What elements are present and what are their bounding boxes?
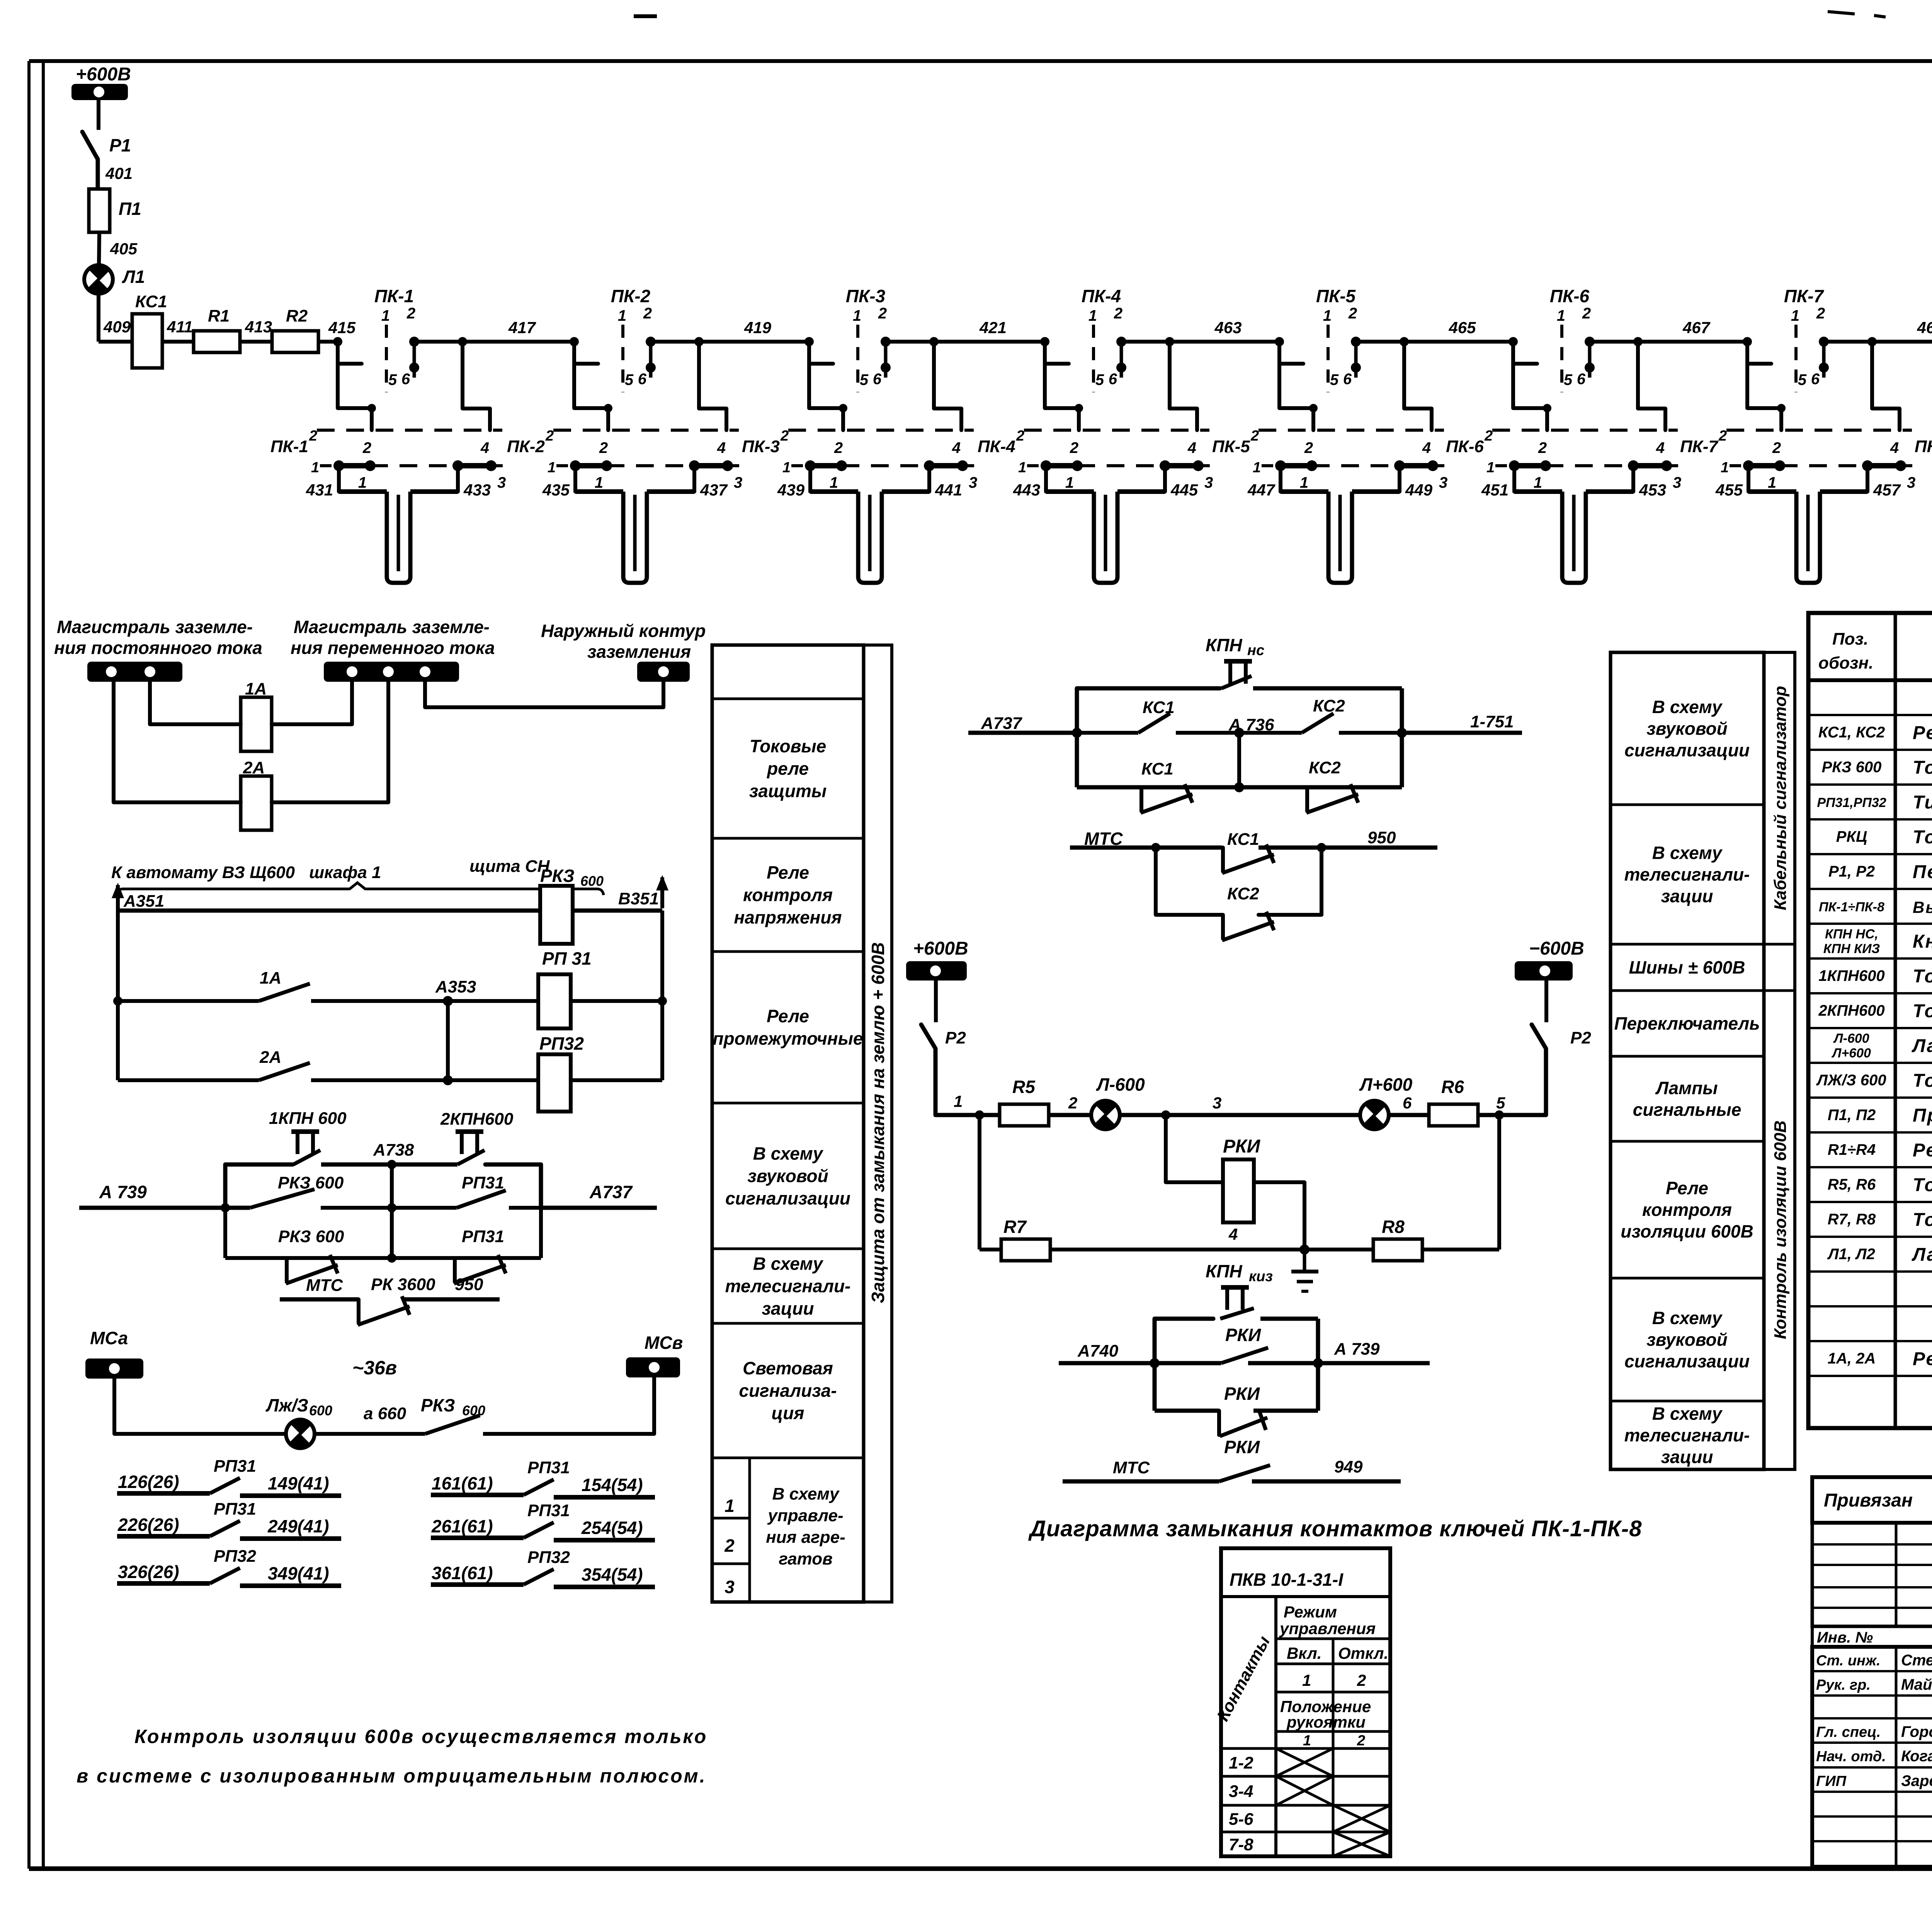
contact row ПК-7 terminals 2-4 <box>1680 428 1912 456</box>
svg-text:ПК-4: ПК-4 <box>1082 286 1121 306</box>
svg-text:РКЗ: РКЗ <box>421 1395 455 1415</box>
svg-text:3: 3 <box>1907 474 1915 491</box>
svg-text:В351: В351 <box>618 889 659 908</box>
svg-text:КС1, КС2: КС1, КС2 <box>1818 724 1885 741</box>
wire bus1 to 2А to bus2 <box>114 682 388 802</box>
svg-text:5: 5 <box>1496 1094 1505 1112</box>
wire right rail <box>658 911 667 1080</box>
contact bar ПК-4 1-1 <box>1018 460 1083 491</box>
svg-text:Реле максимального тока РЭВ-57: Реле максимального тока РЭВ-571, Jн = 10… <box>1913 1349 1932 1369</box>
svg-text:3: 3 <box>497 474 506 491</box>
svg-text:Л+600: Л+600 <box>1831 1046 1871 1061</box>
svg-text:телесигнали-: телесигнали- <box>1624 865 1750 885</box>
svg-text:МСв: МСв <box>645 1333 683 1353</box>
svg-text:Переключатель ПБ32: Переключатель ПБ32 <box>1913 862 1932 882</box>
switch ПК-3 contact 5-6 <box>846 286 891 392</box>
wire 441 <box>929 466 962 499</box>
svg-text:ПК-3: ПК-3 <box>742 437 780 456</box>
svg-text:рукоятки: рукоятки <box>1286 1713 1366 1731</box>
relay РП31 <box>448 948 662 1028</box>
wire 455 <box>1715 466 1748 499</box>
svg-text:469: 469 <box>1917 318 1932 337</box>
contact РКЗ600 (NO) <box>250 1173 392 1208</box>
svg-text:РП31: РП31 <box>527 1501 570 1520</box>
svg-text:Л1: Л1 <box>122 267 145 287</box>
svg-text:2КПН600: 2КПН600 <box>440 1110 514 1129</box>
svg-text:МТС: МТС <box>1113 1458 1150 1477</box>
svg-text:В схему: В схему <box>1652 1404 1723 1424</box>
svg-text:3: 3 <box>724 1577 735 1597</box>
contact РК3600 (NC) <box>358 1296 410 1325</box>
wire 457 <box>1867 466 1901 499</box>
svg-text:Откл.: Откл. <box>1338 1644 1388 1662</box>
svg-text:5: 5 <box>1095 371 1104 388</box>
svg-text:467: 467 <box>1682 318 1711 337</box>
wire step-down ПК-4 right to lower row <box>1170 342 1197 430</box>
svg-text:Реле: Реле <box>767 863 809 883</box>
svg-text:промежуточные: промежуточные <box>713 1028 863 1049</box>
svg-text:600: 600 <box>580 873 604 889</box>
svg-text:437: 437 <box>700 481 728 499</box>
wire bus step to ПК-7 pin5 <box>1743 337 1771 364</box>
svg-text:1-751: 1-751 <box>1470 712 1514 731</box>
svg-text:зации: зации <box>1661 886 1713 906</box>
switch Р2 (right) <box>1532 981 1591 1115</box>
svg-text:R8: R8 <box>1382 1217 1405 1237</box>
svg-text:а 660: а 660 <box>364 1404 406 1423</box>
wire bus step to ПК-2 pin5 <box>570 337 598 364</box>
svg-text:Контроль изоляции 600в осущ: Контроль изоляции 600в осуществляется то… <box>134 1726 707 1747</box>
svg-text:Привязан: Привязан <box>1824 1490 1913 1511</box>
svg-text:То же , ПЭВ-100, 100Вт, 1: То же , ПЭВ-100, 100Вт, 10000 Ом <box>1913 1210 1932 1230</box>
svg-text:1: 1 <box>1323 307 1332 324</box>
resistor R8 <box>1373 1217 1422 1261</box>
svg-text:2: 2 <box>724 1536 735 1556</box>
lamp Л-600 <box>1091 1074 1145 1129</box>
svg-text:2: 2 <box>362 439 371 456</box>
svg-text:То же, ПЭ-21, ~220В, к: 2: То же, ПЭ-21, ~220В, к: 2з+2р+2П <box>1913 758 1932 778</box>
contact row ПК-6 terminals 2-4 <box>1446 428 1678 456</box>
svg-text:600: 600 <box>309 1403 332 1418</box>
svg-text:6: 6 <box>1403 1094 1412 1112</box>
wire МТС-949 <box>1063 1457 1401 1481</box>
wire bus 467 <box>1590 318 1747 346</box>
wire 447 <box>1247 466 1281 499</box>
svg-text:РП32: РП32 <box>214 1547 256 1566</box>
svg-text:В схему: В схему <box>1652 697 1723 717</box>
svg-text:1: 1 <box>1303 1733 1311 1749</box>
svg-text:ПК-6: ПК-6 <box>1446 437 1484 456</box>
svg-text:443: 443 <box>1013 481 1040 499</box>
svg-text:В схему: В схему <box>1652 1308 1723 1328</box>
svg-text:ПК-4: ПК-4 <box>978 437 1015 456</box>
control cable ПК-3 <box>810 492 929 583</box>
svg-text:950: 950 <box>455 1275 483 1294</box>
svg-text:К автомату ВЗ Щ600: К автомату ВЗ Щ600 <box>111 863 295 882</box>
svg-text:349(41): 349(41) <box>268 1563 329 1583</box>
ground bus AC <box>324 662 459 682</box>
svg-text:ПКВ 10-1-31-I: ПКВ 10-1-31-I <box>1230 1570 1344 1590</box>
lamp ЛЖ/З600 <box>265 1395 332 1448</box>
svg-text:4: 4 <box>1422 439 1431 456</box>
top margin marks <box>634 12 1886 17</box>
svg-text:Л-600: Л-600 <box>1833 1031 1869 1046</box>
svg-text:126(26): 126(26) <box>118 1472 179 1492</box>
svg-text:441: 441 <box>935 481 962 499</box>
contact РКИ (NO) mid <box>1221 1348 1268 1363</box>
svg-text:1А, 2А: 1А, 2А <box>1828 1350 1876 1367</box>
svg-text:РКИ: РКИ <box>1223 1136 1261 1157</box>
svg-text:киз: киз <box>1249 1268 1273 1285</box>
svg-text:405: 405 <box>110 240 138 258</box>
svg-text:1: 1 <box>853 307 861 324</box>
resistor R6 <box>1429 1077 1478 1126</box>
svg-text:РП32: РП32 <box>539 1033 584 1054</box>
svg-text:Поз.: Поз. <box>1832 630 1868 649</box>
button КПН КИЗ <box>1206 1261 1273 1319</box>
switch Р2 (left) <box>921 981 966 1115</box>
svg-text:ПК-2: ПК-2 <box>611 286 651 306</box>
wire bus 465 <box>1356 318 1513 346</box>
wire bus 419 <box>651 318 809 346</box>
svg-text:А737: А737 <box>981 714 1023 733</box>
svg-text:457: 457 <box>1873 481 1901 499</box>
svg-text:управле-: управле- <box>767 1506 843 1525</box>
svg-text:Лампы: Лампы <box>1655 1078 1718 1098</box>
svg-text:гатов: гатов <box>779 1549 832 1568</box>
wire 6 <box>1388 1094 1429 1115</box>
svg-text:451: 451 <box>1481 481 1509 499</box>
svg-text:6: 6 <box>638 371 647 388</box>
svg-text:431: 431 <box>306 481 333 499</box>
control cable ПК-1 <box>339 492 458 583</box>
svg-text:1-2: 1-2 <box>1229 1753 1253 1772</box>
control cable ПК-5 <box>1281 492 1400 583</box>
svg-text:4: 4 <box>1656 439 1665 456</box>
relay КС1 <box>132 292 167 368</box>
svg-text:реле: реле <box>766 759 809 779</box>
svg-text:154(54): 154(54) <box>582 1475 643 1495</box>
svg-text:1: 1 <box>595 474 603 491</box>
svg-text:Шины ± 600В: Шины ± 600В <box>1629 957 1745 977</box>
svg-text:161(61): 161(61) <box>432 1473 493 1493</box>
svg-text:ПК-6: ПК-6 <box>1550 286 1590 306</box>
svg-text:РП31: РП31 <box>214 1500 256 1519</box>
contact bar ПК-7 1-1 <box>1721 460 1785 491</box>
node А351 (arrow) <box>112 883 164 916</box>
svg-text:РКЗ 600: РКЗ 600 <box>1822 759 1882 776</box>
title block: Привязан box <box>1812 1477 1932 1523</box>
zone table Защита от замыкания <box>712 645 864 1602</box>
wire 435 <box>542 466 575 499</box>
wire lower rail КПН НС <box>1077 733 1402 787</box>
svg-text:РК 3600: РК 3600 <box>371 1275 435 1294</box>
svg-text:А 739: А 739 <box>99 1182 147 1202</box>
svg-text:5: 5 <box>625 371 634 388</box>
svg-text:Переключатель: Переключатель <box>1614 1013 1760 1033</box>
contact 1А <box>118 969 448 1001</box>
label ~36в <box>352 1357 397 1379</box>
wire bus2 to outer loop <box>425 682 663 707</box>
svg-text:447: 447 <box>1247 481 1276 499</box>
svg-text:контроля: контроля <box>743 885 833 905</box>
svg-text:7-8: 7-8 <box>1229 1835 1253 1854</box>
svg-text:Реле промежуточное ПЭ-21,-24В,: Реле промежуточное ПЭ-21,-24В, К:2з+2р+2… <box>1913 723 1932 743</box>
wire А351-В351 <box>118 909 662 913</box>
svg-text:2: 2 <box>545 428 554 444</box>
svg-text:1: 1 <box>1557 307 1565 324</box>
svg-text:2: 2 <box>834 439 843 456</box>
svg-text:А738: А738 <box>373 1141 414 1159</box>
wire МТС-РК3600-950 <box>280 1275 500 1299</box>
svg-text:2: 2 <box>1348 305 1357 322</box>
relay РКЗ600 <box>540 866 604 944</box>
svg-text:КС2: КС2 <box>1309 758 1341 777</box>
svg-text:411: 411 <box>167 318 193 336</box>
svg-text:R6: R6 <box>1441 1077 1464 1097</box>
svg-text:Наружный контур: Наружный контур <box>541 621 706 641</box>
svg-text:2: 2 <box>643 305 652 322</box>
svg-text:МТС: МТС <box>306 1276 344 1295</box>
svg-text:455: 455 <box>1715 481 1743 499</box>
svg-text:2: 2 <box>1718 428 1727 444</box>
svg-text:1КПН600: 1КПН600 <box>1818 967 1884 984</box>
svg-text:4: 4 <box>1228 1225 1238 1243</box>
wire 433 <box>458 466 491 499</box>
svg-text:361(61): 361(61) <box>432 1563 493 1583</box>
wire bus 463 <box>1121 318 1279 346</box>
svg-text:РП31: РП31 <box>462 1227 504 1246</box>
wire bus 421 <box>886 318 1045 346</box>
wire 411 <box>162 318 194 342</box>
svg-text:4: 4 <box>1187 439 1196 456</box>
svg-text:3: 3 <box>1439 474 1447 491</box>
svg-text:413: 413 <box>245 318 272 336</box>
svg-text:То же: То же <box>1913 966 1932 987</box>
svg-text:В схему: В схему <box>772 1484 840 1503</box>
svg-text:R2: R2 <box>286 306 308 325</box>
svg-text:Л+600: Л+600 <box>1359 1074 1413 1095</box>
svg-text:ПК-3: ПК-3 <box>846 286 886 306</box>
svg-text:В схему: В схему <box>1652 843 1723 863</box>
parallel branch КС2 <box>1151 843 1326 915</box>
wire 443 <box>1013 466 1046 499</box>
contact row ПК-3 terminals 2-4 <box>742 428 974 456</box>
svg-text:2: 2 <box>1816 305 1825 322</box>
wire bottom rail sound <box>225 1208 541 1258</box>
label РКИ (1) <box>1225 1325 1261 1345</box>
svg-text:А740: А740 <box>1077 1341 1119 1360</box>
contact bar ПК-2 3 <box>607 460 742 491</box>
bus МСа <box>85 1328 143 1379</box>
label Магистраль заземления переменного тока <box>291 617 495 658</box>
control cable ПК-7 <box>1748 492 1867 583</box>
label Магистраль заземления постоянного тока <box>54 617 262 658</box>
svg-text:465: 465 <box>1448 318 1476 337</box>
svg-text:контроля: контроля <box>1642 1200 1732 1220</box>
svg-text:1: 1 <box>782 460 791 476</box>
zone table Кабельный сигнализатор / Контроль изоляции <box>1611 652 1764 1469</box>
note Контроль изоляции 600в <box>77 1726 707 1787</box>
svg-text:ПК-1: ПК-1 <box>374 286 414 306</box>
button 1КПН600 <box>269 1109 347 1164</box>
switch Р1 <box>82 132 131 189</box>
relay РП32 <box>448 1033 662 1112</box>
svg-text:звуковой: звуковой <box>1646 718 1727 739</box>
svg-text:Защита от замыкания на зем: Защита от замыкания на землю + 600В <box>868 942 888 1303</box>
svg-text:6: 6 <box>1811 371 1820 388</box>
svg-text:Л-600: Л-600 <box>1096 1074 1145 1095</box>
wire 5 <box>1478 1094 1546 1120</box>
svg-text:6: 6 <box>1577 371 1586 388</box>
wire bus1 to 1А to bus2 <box>150 682 352 724</box>
wire step-down ПК-2 left to lower row <box>574 364 612 430</box>
svg-text:РП31,РП32: РП31,РП32 <box>1817 795 1886 810</box>
contact bar ПК-1 3 <box>370 460 506 491</box>
wire bus 469 <box>1824 318 1932 346</box>
zone strip Кабельный сигнализатор (middle) <box>1764 652 1795 1469</box>
wire top rail sound <box>225 1164 541 1208</box>
svg-text:1: 1 <box>1253 460 1261 476</box>
contact КС2 (NO) <box>1239 696 1407 738</box>
svg-text:Контроль изоляции 600В: Контроль изоляции 600В <box>1771 1120 1790 1339</box>
svg-text:354(54): 354(54) <box>582 1564 643 1585</box>
svg-text:сигнализации: сигнализации <box>1624 1351 1750 1371</box>
svg-text:2КПН600: 2КПН600 <box>1818 1002 1884 1019</box>
contact bar ПК-6 3 <box>1546 460 1681 491</box>
contact КС1 (NC) <box>1222 830 1274 873</box>
svg-text:Реле: Реле <box>1666 1178 1708 1198</box>
button КПН НС <box>1206 635 1264 688</box>
contact bar ПК-2 1-1 <box>548 460 612 491</box>
svg-text:3: 3 <box>1213 1094 1221 1112</box>
contact row ПК-5 terminals 2-4 <box>1212 428 1444 456</box>
wire bus step to ПК-6 pin5 <box>1509 337 1537 364</box>
svg-text:А 739: А 739 <box>1334 1340 1380 1359</box>
wire 413 <box>240 318 272 342</box>
contact КС1 (NO) <box>1077 698 1239 733</box>
svg-text:5: 5 <box>1564 371 1573 388</box>
label РКИ (3) <box>1224 1437 1260 1457</box>
svg-text:2: 2 <box>599 439 608 456</box>
svg-text:+600В: +600В <box>76 64 131 85</box>
wire 3 <box>1119 1094 1360 1120</box>
svg-text:Лж/З: Лж/З <box>265 1395 308 1415</box>
wire step-down ПК-1 left to lower row <box>338 364 376 430</box>
svg-text:1: 1 <box>1018 460 1026 476</box>
contact bar ПК-6 1-1 <box>1486 460 1551 491</box>
svg-text:463: 463 <box>1214 318 1242 337</box>
svg-text:П1, П2: П1, П2 <box>1828 1107 1876 1124</box>
contact РП32 (326(26)/349(41)) <box>117 1547 341 1586</box>
wire step-down ПК-6 left to lower row <box>1513 364 1551 430</box>
svg-text:2: 2 <box>878 305 887 322</box>
svg-text:КС1: КС1 <box>1227 830 1259 849</box>
svg-text:Токовые: Токовые <box>750 736 827 756</box>
wire box КПН КИЗ bottom <box>1155 1363 1318 1411</box>
svg-text:Р2: Р2 <box>1570 1028 1591 1047</box>
svg-text:шкафа 1: шкафа 1 <box>309 863 381 882</box>
contact bar ПК-3 3 <box>842 460 977 491</box>
svg-text:РКИ: РКИ <box>1225 1325 1261 1345</box>
svg-text:3: 3 <box>734 474 742 491</box>
wire left rail <box>113 911 122 1080</box>
svg-text:3: 3 <box>1204 474 1213 491</box>
svg-text:1: 1 <box>548 460 556 476</box>
svg-text:2: 2 <box>1068 1094 1077 1112</box>
svg-text:445: 445 <box>1170 481 1198 499</box>
lamp Л1 <box>84 265 145 294</box>
svg-text:2: 2 <box>1772 439 1781 456</box>
svg-text:Инв. №: Инв. № <box>1817 1629 1873 1646</box>
svg-text:РКЗ 600: РКЗ 600 <box>278 1227 344 1246</box>
svg-text:Л1, Л2: Л1, Л2 <box>1827 1246 1875 1263</box>
svg-text:Гороховский: Гороховский <box>1901 1723 1932 1740</box>
svg-text:КС1: КС1 <box>135 292 167 311</box>
svg-text:2: 2 <box>1357 1733 1365 1749</box>
wire step-down ПК-7 left to lower row <box>1747 364 1786 430</box>
svg-text:5-6: 5-6 <box>1229 1810 1253 1829</box>
svg-text:6: 6 <box>1109 371 1117 388</box>
svg-text:Нач. отд.: Нач. отд. <box>1816 1748 1886 1765</box>
wire А737 <box>968 714 1082 738</box>
svg-text:МСа: МСа <box>90 1328 128 1348</box>
svg-text:Кнопка управления КЕ-011, и: Кнопка управления КЕ-011, исп 2 <box>1913 931 1932 952</box>
svg-text:433: 433 <box>463 481 491 499</box>
svg-text:226(26): 226(26) <box>117 1515 179 1535</box>
svg-text:заземления: заземления <box>587 642 691 662</box>
wire 405 <box>99 232 138 265</box>
wire МТС-950 <box>1070 828 1437 849</box>
svg-text:А737: А737 <box>589 1182 633 1202</box>
contact РП32 (361(61)/354(54)) <box>431 1548 655 1587</box>
contact РП31 (NC) lower <box>454 1227 506 1284</box>
wire 453 <box>1633 466 1666 499</box>
contact bar ПК-7 3 <box>1780 460 1915 491</box>
svg-text:−600В: −600В <box>1529 938 1584 959</box>
svg-text:Резистор ПЭВ-75, 75Вт, 150: Резистор ПЭВ-75, 75Вт, 1500 Ом <box>1913 1140 1932 1161</box>
node А738 vertical <box>373 1141 414 1263</box>
svg-text:2: 2 <box>406 305 415 322</box>
svg-text:1КПН 600: 1КПН 600 <box>269 1109 347 1128</box>
wire step-down ПК-1 right to lower row <box>463 342 490 430</box>
control cable ПК-2 <box>575 492 694 583</box>
svg-text:261(61): 261(61) <box>431 1516 493 1536</box>
svg-text:Магистраль заземле-: Магистраль заземле- <box>57 617 253 637</box>
svg-text:2: 2 <box>1070 439 1078 456</box>
wire step-down ПК-3 left to lower row <box>809 364 847 430</box>
svg-text:обозн.: обозн. <box>1818 654 1873 672</box>
svg-text:Режим: Режим <box>1284 1603 1337 1621</box>
svg-text:Реле: Реле <box>767 1006 809 1026</box>
svg-text:В схему: В схему <box>753 1144 824 1164</box>
svg-text:2А: 2А <box>259 1048 281 1067</box>
node В351 (arrow) <box>618 875 668 908</box>
resistor R7 <box>1001 1217 1050 1261</box>
wire 439 <box>777 466 810 499</box>
svg-text:2: 2 <box>1357 1671 1366 1689</box>
svg-text:КПН НС,: КПН НС, <box>1825 927 1878 941</box>
contact РП31 (161(61)/154(54)) <box>431 1458 655 1497</box>
svg-text:1: 1 <box>1791 307 1799 324</box>
contact bar ПК-5 3 <box>1312 460 1447 491</box>
svg-text:1: 1 <box>311 460 319 476</box>
svg-text:Кабельный сигнализатор: Кабельный сигнализатор <box>1771 686 1790 910</box>
bus +600В (left) <box>71 64 131 100</box>
svg-text:Ст. инж.: Ст. инж. <box>1816 1653 1881 1669</box>
svg-text:3: 3 <box>1673 474 1681 491</box>
svg-text:2: 2 <box>1484 428 1493 444</box>
